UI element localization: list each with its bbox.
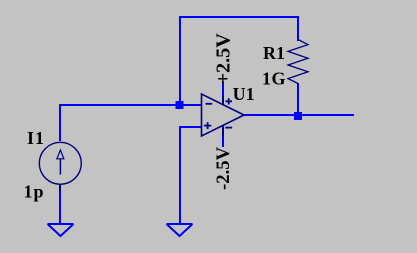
svg-text:I1: I1 <box>27 128 45 148</box>
svg-text:1p: 1p <box>24 182 45 202</box>
svg-text:-2.5V: -2.5V <box>213 146 234 190</box>
svg-text:U1: U1 <box>233 84 255 104</box>
svg-text:1G: 1G <box>262 69 286 89</box>
svg-text:+2.5V: +2.5V <box>213 33 235 85</box>
svg-text:R1: R1 <box>263 43 285 63</box>
